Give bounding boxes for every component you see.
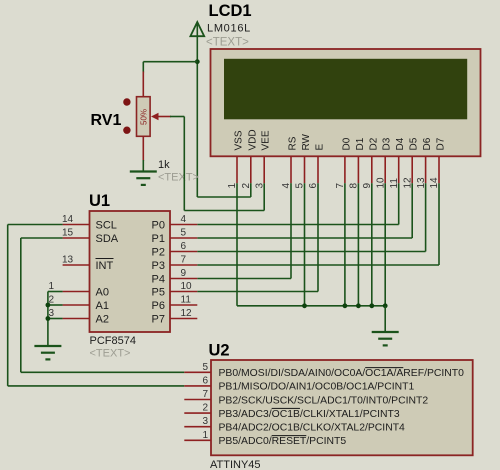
U2 pin number 2: [202, 403, 208, 414]
U1 left pin stubs SCL SDA INT A0 A1 A2: [63, 225, 90, 319]
svg-text:E: E: [315, 144, 326, 151]
svg-text:P7: P7: [152, 314, 165, 326]
RV1 label: [91, 112, 122, 129]
junction D2 ground: [369, 303, 374, 308]
svg-text:<TEXT>: <TEXT>: [158, 172, 199, 184]
U1 pin number 14: [62, 214, 74, 225]
svg-text:RS: RS: [288, 136, 299, 150]
svg-text:D7: D7: [436, 137, 447, 150]
junction RW ground: [302, 303, 307, 308]
wire A0 to ground: [48, 292, 63, 347]
wire D5 to U1 P1: [197, 183, 412, 238]
U1 pin number 11: [181, 295, 192, 306]
U2 pin name PB5: [219, 436, 347, 447]
LCD pin numbers 1-14: [227, 177, 440, 189]
U2 pin number 3: [202, 416, 208, 427]
U1 pin number 4: [181, 214, 187, 225]
ground under LCD data bus: [372, 332, 399, 345]
wire D4 to U1 P0: [197, 183, 398, 224]
wire SCL to U2 PB1: [8, 225, 185, 386]
svg-text:<TEXT>: <TEXT>: [206, 37, 249, 49]
svg-text:P2: P2: [152, 247, 165, 259]
U2 pin number 1: [202, 430, 208, 441]
svg-text:1: 1: [202, 430, 208, 441]
svg-text:PCF8574: PCF8574: [90, 335, 136, 347]
svg-text:9: 9: [181, 268, 187, 279]
U1 pin name P6: [152, 300, 165, 312]
svg-text:D6: D6: [422, 137, 433, 150]
LCD U-display body: [211, 49, 481, 156]
U1 right pin stubs P0-P7: [170, 225, 197, 319]
U1 pin name A0: [96, 287, 109, 299]
U2 pin name PB4: [219, 423, 406, 434]
wire RS pin4 to U1 P4: [197, 183, 291, 278]
svg-text:VEE: VEE: [261, 130, 272, 150]
RV1 value 1k: [158, 159, 170, 171]
svg-text:2: 2: [202, 403, 208, 414]
svg-text:7: 7: [181, 255, 187, 266]
svg-text:INT: INT: [96, 260, 114, 272]
svg-text:1: 1: [49, 281, 55, 292]
wire A1 to ground net: [48, 304, 63, 306]
svg-text:P1: P1: [152, 233, 165, 245]
svg-text:ATTINY45: ATTINY45: [210, 459, 261, 470]
svg-text:PB3/ADC3/OC1B/CLKI/XTAL1/PCINT: PB3/ADC3/OC1B/CLKI/XTAL1/PCINT3: [219, 409, 400, 420]
U1 pin number 3: [49, 308, 55, 319]
U1 pin name P3: [152, 260, 165, 272]
transistor U2 body ATTINY45: [211, 360, 473, 455]
svg-text:11: 11: [181, 295, 192, 306]
wire D1 to ground bus: [357, 183, 359, 306]
wire SDA to U2 PB0: [21, 238, 185, 372]
wire RW pin5 to ground bus: [304, 183, 306, 306]
wire VDD pin2 to power: [197, 183, 251, 197]
svg-text:13: 13: [62, 255, 74, 266]
ground under RV1: [130, 172, 157, 185]
svg-text:VDD: VDD: [247, 129, 258, 150]
svg-text:RV1: RV1: [91, 112, 122, 129]
wire D7 to U1 P3: [197, 183, 439, 265]
svg-text:LCD1: LCD1: [209, 2, 252, 20]
svg-text:12: 12: [181, 308, 193, 319]
svg-text:A2: A2: [96, 314, 109, 326]
wire RV1 wiper to VEE: [170, 117, 264, 211]
U1 pin number 15: [62, 228, 74, 239]
power symbol +V: [190, 22, 204, 36]
svg-text:LM016L: LM016L: [207, 23, 251, 35]
junction A2: [46, 316, 51, 321]
U1 pin name P1: [152, 233, 165, 245]
junction D1 ground: [356, 303, 361, 308]
wire power to RV1 top: [143, 62, 197, 73]
U1 pin number 6: [181, 241, 187, 252]
svg-text:15: 15: [62, 228, 74, 239]
svg-text:D2: D2: [368, 137, 379, 150]
wire D3 to ground bus: [384, 183, 386, 306]
U2 pin number 7: [202, 389, 208, 400]
U1 label: [89, 192, 110, 210]
svg-text:D4: D4: [395, 137, 406, 150]
U1 text placeholder: [90, 348, 131, 360]
svg-text:PB0/MOSI/DI/SDA/AIN0/OC0A/OC1A: PB0/MOSI/DI/SDA/AIN0/OC0A/OC1A/AREF/PCIN…: [219, 368, 465, 379]
U1 pin number 13: [62, 255, 74, 266]
ground under A0 A1 A2: [34, 346, 61, 359]
U1 pin number 12: [181, 308, 193, 319]
U1 part name PCF8574: [90, 335, 136, 347]
U1 pin name P5: [152, 287, 165, 299]
op-amp U1 body PCF8574: [90, 211, 171, 332]
RV1 terminal marker top: [123, 98, 130, 105]
U2 pin name PB1: [219, 382, 415, 393]
svg-text:PB1/MISO/DO/AIN1/OC0B/OC1A/PCI: PB1/MISO/DO/AIN1/OC0B/OC1A/PCINT1: [219, 382, 415, 393]
svg-text:P5: P5: [152, 287, 165, 299]
svg-text:6: 6: [181, 241, 187, 252]
svg-text:A0: A0: [96, 287, 109, 299]
U1 pin number 2: [49, 295, 55, 306]
svg-text:6: 6: [202, 375, 208, 386]
wire D6 to U1 P2: [197, 183, 425, 251]
junction D0 ground: [343, 303, 348, 308]
wire A2 to ground net: [48, 318, 63, 320]
svg-text:7: 7: [202, 389, 208, 400]
svg-text:10: 10: [181, 281, 193, 292]
wire E pin6 to U1 P5: [197, 183, 318, 291]
svg-text:VSS: VSS: [234, 130, 245, 150]
svg-text:D5: D5: [409, 137, 420, 150]
svg-text:P4: P4: [152, 274, 165, 286]
RV1 top pin: [142, 72, 144, 98]
svg-text:SCL: SCL: [96, 220, 117, 232]
RV1 bottom pin: [142, 136, 144, 161]
svg-text:50%: 50%: [140, 109, 149, 125]
svg-text:D0: D0: [341, 137, 352, 150]
U1 pin number 9: [181, 268, 187, 279]
U1 pin name P7: [152, 314, 165, 326]
svg-text:PB4/ADC2/OC1B/CLKO/XTAL2/PCINT: PB4/ADC2/OC1B/CLKO/XTAL2/PCINT4: [219, 423, 406, 434]
svg-text:P0: P0: [152, 220, 165, 232]
U2 pin name PB0: [219, 368, 465, 379]
junction node power/RV1 branch: [195, 59, 200, 64]
U1 pin name INT: [96, 259, 114, 273]
U2 pin number 5: [202, 362, 208, 373]
wire VSS pin1 to ground bus: [237, 183, 385, 306]
U2 pin stubs left: [184, 372, 211, 440]
wire power stem down to VDD row: [196, 23, 198, 197]
svg-text:5: 5: [202, 362, 208, 373]
U2 label: [209, 342, 230, 360]
svg-text:<TEXT>: <TEXT>: [90, 348, 131, 360]
junction D3 ground: [383, 303, 388, 308]
U1 pin number 1: [49, 281, 55, 292]
svg-text:U1: U1: [89, 192, 110, 210]
LCD pin names VSS VDD VEE RS RW E D0-D7: [234, 129, 447, 150]
U1 pin name SCL: [96, 220, 117, 232]
resistor RV1 body: [137, 97, 151, 137]
svg-text:4: 4: [181, 214, 187, 225]
wire D2 to ground bus: [371, 183, 373, 306]
U2 pin name PB2: [219, 395, 429, 406]
svg-text:1k: 1k: [158, 159, 170, 171]
svg-text:PB5/ADC0/RESET/PCINT5: PB5/ADC0/RESET/PCINT5: [219, 436, 347, 447]
RV1 wiper arrow: [151, 113, 171, 120]
svg-text:5: 5: [181, 228, 187, 239]
RV1 50% value: [140, 109, 149, 125]
svg-text:D1: D1: [355, 137, 366, 150]
U1 pin name A1: [96, 300, 109, 312]
wire D0 to ground bus: [344, 183, 346, 306]
svg-text:SDA: SDA: [96, 233, 119, 245]
wire ground bus drop: [384, 306, 386, 332]
U1 pin name SDA: [96, 233, 119, 245]
wire RV1 to ground: [142, 160, 144, 172]
U2 pin number 6: [202, 375, 208, 386]
svg-text:P6: P6: [152, 300, 165, 312]
svg-text:A1: A1: [96, 300, 109, 312]
RV1 text placeholder: [158, 172, 199, 184]
LCD1 label: [209, 2, 252, 20]
LCD1 part LM016L: [207, 23, 251, 35]
U1 pin name P4: [152, 274, 165, 286]
LCD1 text placeholder: [206, 37, 249, 49]
svg-text:14: 14: [62, 214, 74, 225]
svg-text:RW: RW: [301, 133, 312, 150]
svg-text:P3: P3: [152, 260, 165, 272]
RV1 terminal marker bottom: [123, 127, 130, 134]
svg-text:3: 3: [254, 183, 265, 189]
LCD pin stubs 1-14: [237, 156, 439, 183]
U1 pin number 7: [181, 255, 187, 266]
U1 pin number 10: [181, 281, 193, 292]
U1 pin name A2: [96, 314, 109, 326]
svg-text:U2: U2: [209, 342, 230, 360]
U1 pin name P0: [152, 220, 165, 232]
junction A1: [46, 303, 51, 308]
svg-text:D3: D3: [382, 137, 393, 150]
svg-text:3: 3: [202, 416, 208, 427]
U2 pin name PB3: [219, 409, 400, 420]
U1 pin name P2: [152, 247, 165, 259]
U1 pin number 5: [181, 228, 187, 239]
svg-text:PB2/SCK/USCK/SCL/ADC1/T0/INT0/: PB2/SCK/USCK/SCL/ADC1/T0/INT0/PCINT2: [219, 395, 429, 406]
U2 part name ATTINY45: [210, 459, 261, 470]
LCD screen: [224, 59, 467, 120]
